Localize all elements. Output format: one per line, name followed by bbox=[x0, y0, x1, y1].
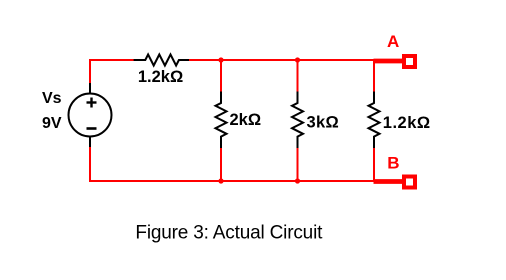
wire: source positive lead to top rail bbox=[89, 59, 91, 84]
wire: source negative lead to bottom rail bbox=[89, 147, 91, 182]
resistor R3 3k vertical bbox=[292, 92, 303, 149]
terminal B pad bbox=[404, 177, 415, 188]
voltage source Vs bbox=[69, 83, 112, 148]
wire: R3 bottom lead bbox=[297, 148, 299, 181]
wire: R2 bottom lead bbox=[220, 148, 222, 181]
wire: R4 top lead bbox=[373, 59, 375, 92]
svg-text:3kΩ: 3kΩ bbox=[307, 113, 339, 131]
svg-text:B: B bbox=[387, 154, 399, 173]
svg-text:1.2kΩ: 1.2kΩ bbox=[383, 114, 431, 132]
wire: top rail, R1 to corner of terminal A branch bbox=[189, 59, 375, 61]
wire: R4 bottom lead bbox=[373, 148, 375, 182]
resistor R4 1.2k vertical bbox=[369, 92, 380, 149]
wire: thick stub to terminal A bbox=[374, 59, 404, 64]
resistor R2 2k vertical bbox=[216, 92, 227, 149]
terminal A pad bbox=[404, 56, 415, 67]
svg-text:Figure 3: Actual Circuit: Figure 3: Actual Circuit bbox=[135, 223, 323, 244]
wire: bottom rail, source to corner of terminal B branch bbox=[89, 180, 375, 182]
junction: top rail / R2 bbox=[218, 57, 223, 62]
junction: bottom rail / R2 bbox=[218, 178, 223, 183]
svg-text:1.2kΩ: 1.2kΩ bbox=[138, 68, 183, 86]
wire: R2 top lead bbox=[220, 60, 222, 92]
svg-text:2kΩ: 2kΩ bbox=[230, 111, 262, 129]
wire: top rail, source to R1 bbox=[90, 59, 134, 61]
resistor R1 1.2k horizontal bbox=[134, 55, 190, 66]
wire: R3 top lead bbox=[297, 60, 299, 92]
wire: thick stub to terminal B bbox=[374, 179, 404, 184]
svg-text:9V: 9V bbox=[42, 115, 62, 132]
svg-text:A: A bbox=[387, 32, 399, 51]
svg-text:Vs: Vs bbox=[42, 90, 62, 107]
junction: bottom rail / R3 bbox=[295, 178, 300, 183]
junction: top rail / R3 bbox=[295, 57, 300, 62]
